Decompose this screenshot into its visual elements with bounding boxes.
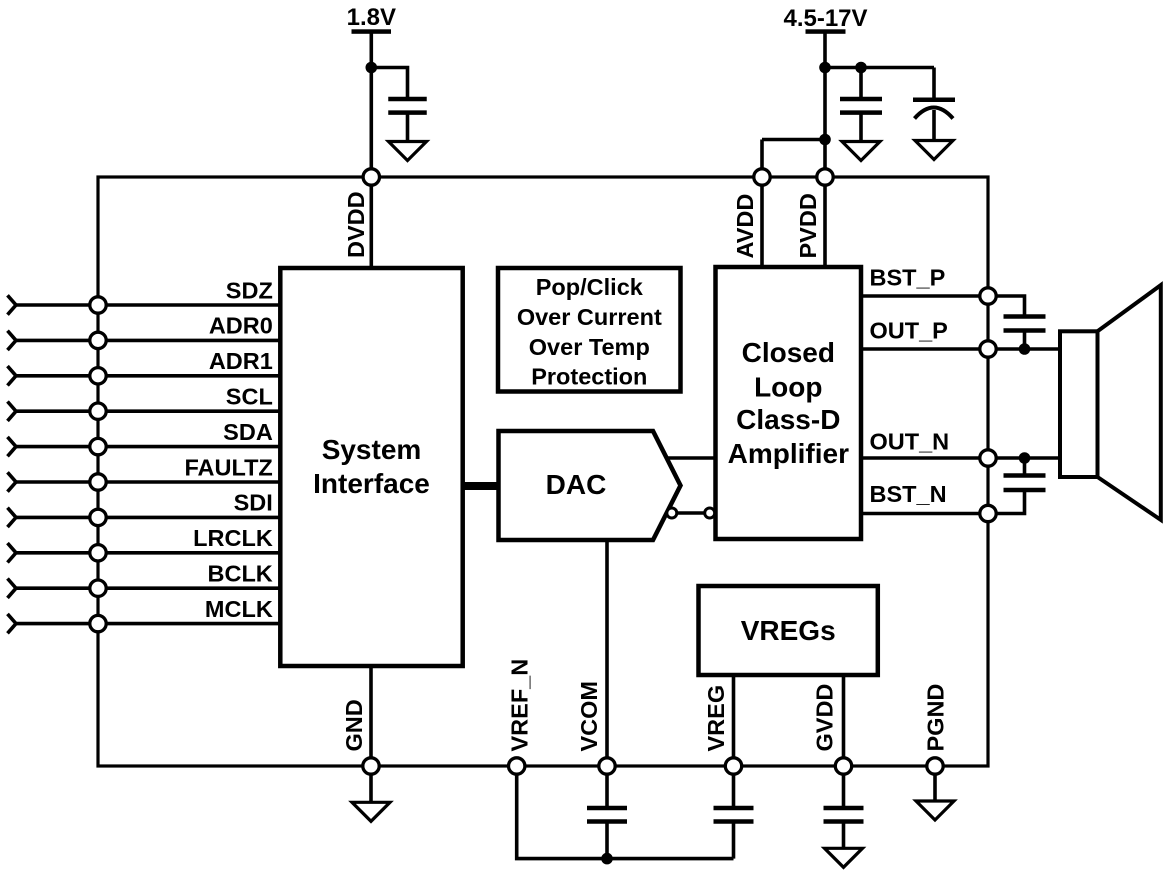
svg-text:Interface: Interface <box>313 468 430 499</box>
svg-text:PGND: PGND <box>923 684 949 752</box>
svg-text:1.8V: 1.8V <box>347 4 396 31</box>
svg-text:Protection: Protection <box>531 364 647 390</box>
svg-text:OUT_P: OUT_P <box>870 318 948 344</box>
svg-text:Over Current: Over Current <box>517 304 662 330</box>
svg-text:MCLK: MCLK <box>205 596 273 622</box>
svg-text:VREG: VREG <box>703 685 729 752</box>
svg-text:System: System <box>322 434 422 465</box>
svg-text:Pop/Click: Pop/Click <box>536 274 644 300</box>
svg-text:AVDD: AVDD <box>732 194 758 259</box>
svg-text:SDZ: SDZ <box>226 277 273 303</box>
svg-text:SDI: SDI <box>234 490 273 516</box>
svg-text:Class-D: Class-D <box>736 404 840 435</box>
svg-text:PVDD: PVDD <box>795 193 821 258</box>
svg-text:BST_P: BST_P <box>870 265 946 291</box>
svg-text:OUT_N: OUT_N <box>870 429 950 455</box>
svg-text:FAULTZ: FAULTZ <box>184 454 272 480</box>
svg-text:Amplifier: Amplifier <box>728 438 849 469</box>
svg-text:ADR1: ADR1 <box>209 348 273 374</box>
svg-text:Over Temp: Over Temp <box>529 334 650 360</box>
svg-text:Closed: Closed <box>742 337 835 368</box>
svg-text:GND: GND <box>341 699 367 751</box>
svg-text:SCL: SCL <box>226 384 273 410</box>
svg-text:4.5-17V: 4.5-17V <box>783 5 867 32</box>
svg-text:DAC: DAC <box>546 469 607 500</box>
svg-text:DVDD: DVDD <box>343 191 369 258</box>
svg-text:BCLK: BCLK <box>208 561 273 587</box>
svg-text:VCOM: VCOM <box>576 681 602 752</box>
svg-text:VREGs: VREGs <box>741 615 836 646</box>
svg-text:Loop: Loop <box>754 372 822 403</box>
svg-text:LRCLK: LRCLK <box>193 525 273 551</box>
svg-text:BST_N: BST_N <box>870 481 947 507</box>
svg-text:GVDD: GVDD <box>812 684 838 752</box>
svg-text:ADR0: ADR0 <box>209 313 273 339</box>
svg-text:SDA: SDA <box>223 419 273 445</box>
svg-text:VREF_N: VREF_N <box>506 659 532 752</box>
